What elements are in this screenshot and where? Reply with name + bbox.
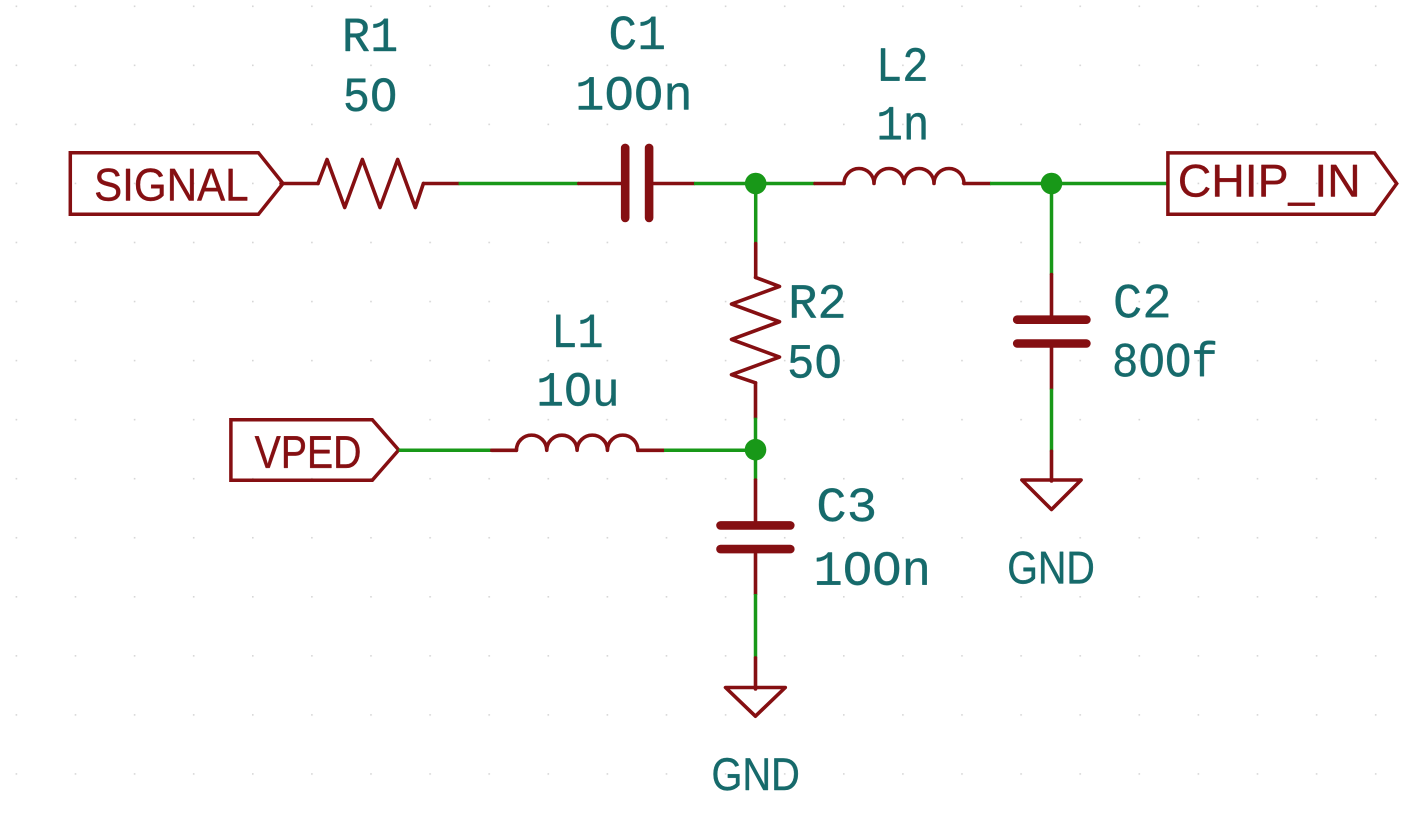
GND net text below C3	[714, 758, 798, 791]
L2 reference text	[881, 48, 926, 81]
global label VPED	[231, 420, 399, 481]
C3 value 100n	[817, 552, 927, 585]
capacitor C3	[721, 480, 791, 594]
R1 value 50	[346, 78, 395, 111]
R1 reference text	[346, 19, 396, 51]
C1 reference text	[611, 16, 664, 49]
wire node A down to R2	[754, 184, 758, 244]
wire C2 to GND	[1050, 389, 1054, 452]
wire node B down to C2	[1050, 184, 1054, 275]
ground symbol below C2	[1022, 451, 1081, 509]
wire VPED to L1	[399, 449, 492, 453]
global label SIGNAL	[70, 153, 283, 215]
C2 value 800f	[1115, 341, 1215, 377]
capacitor C2	[1017, 275, 1086, 389]
wire node A to L2	[756, 182, 815, 186]
wire L2 to node B	[990, 182, 1052, 186]
L2 value 1n	[880, 107, 926, 139]
C3 reference text	[819, 488, 874, 521]
wire C1 to node A	[694, 182, 756, 186]
wire SIGNAL rail segment 1	[459, 182, 579, 186]
wire L1 to node C	[664, 449, 756, 453]
wire node B to CHIP_IN	[1052, 182, 1168, 186]
C1 value 100n	[579, 77, 689, 110]
inductor L1	[492, 435, 664, 450]
junction node B	[1041, 173, 1063, 195]
capacitor C1	[579, 148, 694, 218]
wire node C down to C3	[754, 450, 758, 480]
junction node A	[745, 173, 767, 195]
L1 value 10u	[540, 373, 616, 406]
inductor L2	[815, 169, 990, 184]
R2 value 50	[790, 345, 840, 378]
resistor R1	[281, 160, 459, 208]
resistor R2	[732, 244, 780, 418]
wire C3 to GND	[754, 594, 758, 658]
wire R2 to node C	[754, 418, 758, 450]
ground symbol below C3	[726, 658, 786, 716]
R2 reference text	[792, 285, 843, 318]
global label CHIP_IN	[1168, 153, 1397, 214]
C2 reference text	[1116, 284, 1169, 317]
GND net text below C2	[1009, 551, 1093, 584]
junction node C	[745, 439, 767, 461]
L1 reference text	[556, 315, 601, 347]
